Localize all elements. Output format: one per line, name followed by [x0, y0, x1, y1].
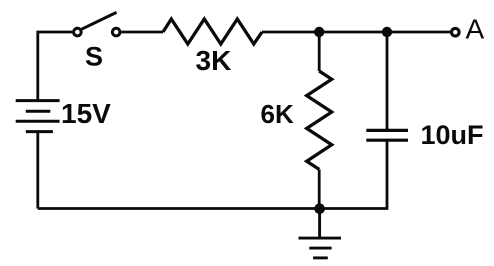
battery 15V — [16, 101, 60, 132]
wire 3K to terminal A — [262, 31, 451, 34]
resistor 3K — [163, 19, 262, 44]
capacitor 10uF — [366, 32, 408, 209]
junction node top of 6K — [314, 27, 324, 37]
terminal A — [452, 28, 460, 36]
svg-text:6K: 6K — [261, 99, 294, 129]
ground — [299, 209, 342, 258]
junction node ground — [314, 203, 325, 214]
svg-text:A: A — [466, 13, 485, 44]
svg-text:15V: 15V — [61, 98, 111, 129]
svg-text:3K: 3K — [196, 45, 232, 76]
switch S — [74, 12, 120, 35]
wire switch to 3K — [121, 31, 163, 34]
svg-text:10uF: 10uF — [421, 120, 484, 150]
bottom wire — [38, 207, 389, 210]
junction node top of capacitor — [382, 27, 392, 37]
wire battery bottom to ground rail — [36, 132, 39, 209]
svg-text:S: S — [85, 42, 103, 72]
resistor 6K — [307, 32, 332, 209]
wire battery top to switch — [38, 32, 73, 101]
